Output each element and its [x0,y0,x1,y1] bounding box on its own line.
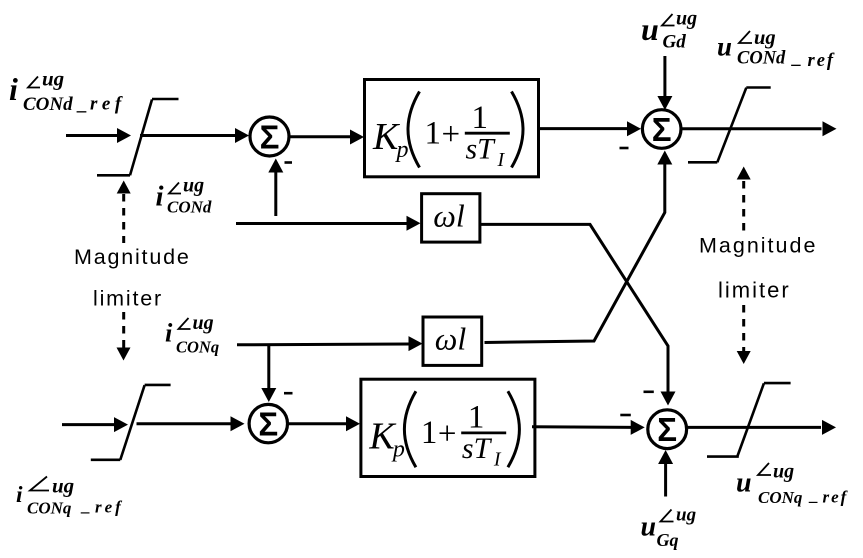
svg-text:CONd: CONd [23,94,73,115]
svg-text:i: i [156,181,164,213]
svg-text:u: u [641,11,659,47]
svg-text:ref: ref [95,498,124,517]
wire S4 output to q limiter and out [687,420,836,435]
svg-text:u: u [736,467,752,498]
summer S1 [250,117,289,156]
minus sign at S4 top input [644,390,654,393]
wire d-axis reference input [66,128,131,143]
block W2 omega-l (q to d cross coupling) [423,317,482,365]
left magnitude limiter dashed arrow down [117,312,131,361]
limiter L4 (q-axis output saturation) [707,383,791,457]
svg-text:1: 1 [472,100,489,136]
wire PI U2 to summer S4 [532,420,645,435]
svg-text:ref: ref [808,51,836,71]
svg-text:Σ: Σ [258,406,278,443]
svg-text:sT: sT [466,133,497,166]
limiter L1 (d-axis input saturation) [97,99,179,175]
wire i_CONq feed to omega-l block W2 [237,336,423,351]
svg-text:CONq: CONq [27,499,72,518]
svg-text:i: i [16,482,23,508]
svg-text:I: I [493,449,502,471]
svg-text:Gd: Gd [663,32,687,53]
minus sign at S1 bottom input [285,161,293,164]
summer S2 [642,110,681,149]
svg-text:+: + [438,416,457,452]
wire i_CONq feedback down into S3 [261,345,276,402]
svg-text:CONd: CONd [167,198,212,217]
wire i_CONd feedback up into S1 [268,159,283,217]
summer S4 [648,410,687,449]
svg-text:CONd: CONd [737,49,786,69]
svg-text:p: p [391,437,405,463]
svg-text:ug: ug [676,505,696,526]
minus sign at S2 bottom input [620,147,629,150]
wire q-axis reference input [62,417,128,432]
svg-text:Magnitude: Magnitude [699,234,817,258]
svg-text:u: u [717,32,732,62]
wire summer S1 to PI block U1 [290,130,365,145]
node i_CONq label [165,312,219,357]
svg-text:+: + [442,117,461,153]
node i_CONd_ref label [9,67,126,116]
wire u_Gq up into S4 [658,450,673,497]
node u_Gq label [641,505,697,551]
wire limiter L1 to summer S1 [140,128,249,143]
right magnitude limiter dashed arrow down [737,305,751,364]
svg-text:ref: ref [823,488,849,507]
limiter L2 (q-axis input saturation) [91,385,171,460]
svg-text:ug: ug [676,8,697,30]
wire PI U1 to summer S2 [540,121,641,136]
svg-text:ref: ref [90,94,126,115]
svg-text:limiter: limiter [93,287,163,311]
svg-text:CONq: CONq [758,488,803,507]
node u_Gd label [641,8,697,53]
wire limiter L2 to summer S3 [137,416,245,431]
wire S2 output to d limiter and out [681,121,837,136]
svg-text:ug: ug [193,312,214,334]
node i_CONq_ref label [16,474,124,518]
wire i_CONd feed to omega-l block W1 [236,216,421,231]
svg-text:I: I [497,149,506,171]
svg-text:p: p [395,137,409,163]
node i_CONd label [156,175,212,217]
limiter L3 (d-axis output saturation) [688,88,771,163]
wire summer S3 to PI block U2 [288,416,361,431]
wire u_Gd down into S2 [657,56,672,110]
svg-text:Gq: Gq [657,530,679,550]
svg-text:ug: ug [773,461,794,483]
svg-text:i: i [165,318,173,348]
wire W2 output cross-coupled up to summer S2 [485,151,673,343]
svg-text:_: _ [808,486,819,505]
svg-text:_: _ [80,496,91,515]
svg-text:_: _ [76,94,88,115]
svg-text:1: 1 [421,415,438,451]
block U2 PI controller Kp(1+1/sTI) [361,379,535,476]
svg-text:1: 1 [468,400,485,436]
minus sign at S3 top input [284,392,293,395]
svg-text:ωl: ωl [433,198,465,234]
left Magnitude limiter text [74,245,191,311]
summer S3 [249,404,287,442]
right Magnitude limiter text [699,234,817,303]
svg-text:ωl: ωl [435,321,467,357]
block W1 omega-l (d to q cross coupling) [422,194,480,242]
svg-text:Σ: Σ [657,411,677,448]
minus sign at S4 left input [620,414,631,417]
svg-text:Σ: Σ [260,119,280,156]
wire W1 output cross-coupled down to summer S4 [480,224,676,405]
node u_CONd_ref label [717,27,835,71]
svg-text:i: i [9,71,18,107]
svg-text:_: _ [791,49,802,69]
svg-text:u: u [641,512,657,543]
left magnitude limiter dashed arrow up [117,181,131,244]
svg-text:ug: ug [42,67,64,91]
right magnitude limiter dashed arrow up [737,167,751,232]
svg-text:Magnitude: Magnitude [74,245,191,269]
svg-text:CONq: CONq [176,338,219,357]
svg-text:sT: sT [462,432,493,465]
block U1 PI controller Kp(1+1/sTI) [365,80,539,177]
node u_CONq_ref label [736,461,849,508]
svg-text:ug: ug [183,175,204,197]
svg-text:ug: ug [754,27,776,49]
svg-text:1: 1 [425,116,442,152]
svg-text:Σ: Σ [652,111,672,148]
svg-text:limiter: limiter [718,278,791,303]
svg-text:ug: ug [52,474,74,498]
